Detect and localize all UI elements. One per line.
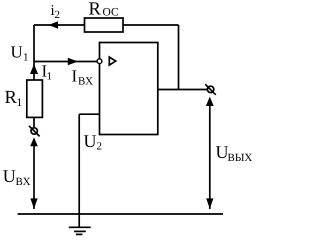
svg-text:1: 1 bbox=[17, 97, 23, 109]
current arrow Iвх bbox=[68, 58, 78, 65]
bottom rail wire bbox=[18, 213, 223, 215]
resistor Roc bbox=[85, 18, 124, 32]
svg-text:ВХ: ВХ bbox=[78, 76, 93, 88]
wire Roc right to feedback corner bbox=[123, 24, 179, 26]
svg-text:ОС: ОС bbox=[103, 6, 119, 18]
svg-text:U: U bbox=[3, 166, 16, 186]
wire op-amp output bbox=[158, 89, 207, 91]
label i2 bbox=[51, 3, 61, 21]
svg-text:U: U bbox=[11, 43, 23, 62]
wire non-inverting input bbox=[79, 113, 99, 115]
label Roc bbox=[89, 0, 119, 19]
wire feedback vertical down to output bbox=[178, 25, 180, 90]
label R1 bbox=[5, 88, 23, 109]
label Iвх bbox=[72, 67, 94, 88]
wire node U1 to inverting input bubble bbox=[34, 61, 97, 63]
svg-text:ВХ: ВХ bbox=[16, 176, 31, 188]
wire non-inverting input down to ground bbox=[78, 114, 80, 227]
label Uвх bbox=[3, 166, 31, 188]
svg-text:1: 1 bbox=[23, 52, 29, 64]
svg-text:2: 2 bbox=[55, 9, 61, 21]
svg-text:1: 1 bbox=[47, 71, 53, 83]
voltage arrow Uвых (double-headed) bbox=[206, 97, 214, 209]
label Uвых bbox=[216, 142, 253, 164]
op-amp inverting input bubble bbox=[97, 59, 102, 64]
svg-text:2: 2 bbox=[97, 141, 103, 153]
label I1 bbox=[42, 62, 53, 83]
op-amp bbox=[100, 43, 158, 135]
ground bbox=[69, 227, 91, 234]
current arrow i2 bbox=[49, 21, 59, 29]
svg-text:ВЫХ: ВЫХ bbox=[228, 152, 253, 164]
voltage arrow Uвх (double-headed) bbox=[30, 137, 38, 209]
label U1 bbox=[11, 43, 29, 64]
svg-text:U: U bbox=[84, 131, 97, 151]
wire left vertical from top corner to node U1 bbox=[33, 25, 35, 62]
label U2 bbox=[84, 131, 103, 153]
current arrow I1 bbox=[30, 64, 38, 74]
wire R1 bottom to input terminal bbox=[33, 117, 35, 128]
svg-text:R: R bbox=[89, 0, 102, 19]
wire top-left horizontal (feedback to node U1) bbox=[34, 24, 85, 26]
output terminal bbox=[205, 84, 216, 95]
svg-text:I: I bbox=[72, 67, 78, 86]
wire node U1 down to R1 bbox=[33, 62, 35, 81]
input terminal bbox=[29, 126, 40, 137]
resistor R1 bbox=[27, 80, 43, 117]
